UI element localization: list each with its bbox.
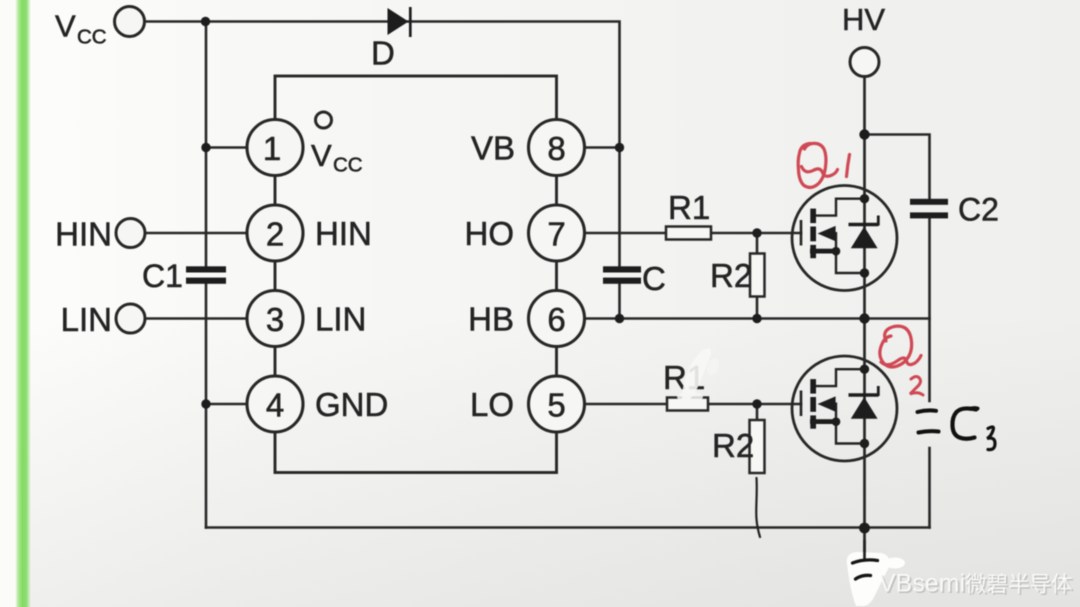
svg-text:LO: LO [470, 386, 514, 423]
svg-text:6: 6 [547, 301, 565, 338]
svg-text:LIN: LIN [315, 301, 366, 338]
svg-text:C: C [642, 260, 666, 297]
svg-text:1: 1 [263, 130, 281, 167]
svg-text:C1: C1 [142, 258, 183, 294]
svg-text:R2: R2 [710, 257, 752, 294]
svg-text:LIN: LIN [61, 301, 112, 338]
svg-text:CC: CC [77, 26, 107, 49]
svg-text:2: 2 [266, 216, 284, 253]
svg-text:VB: VB [471, 130, 515, 167]
svg-text:HB: HB [468, 301, 514, 338]
svg-text:D: D [371, 35, 395, 72]
svg-text:VBsemi微碧半导体: VBsemi微碧半导体 [879, 570, 1073, 598]
svg-text:7: 7 [547, 216, 565, 253]
svg-text:HIN: HIN [55, 216, 112, 253]
svg-text:HV: HV [842, 2, 885, 37]
svg-text:8: 8 [547, 130, 565, 167]
svg-text:CC: CC [333, 154, 363, 177]
svg-text:3: 3 [266, 301, 284, 338]
svg-text:GND: GND [315, 386, 388, 423]
svg-text:HO: HO [465, 215, 515, 252]
svg-text:5: 5 [547, 387, 565, 424]
svg-text:HIN: HIN [315, 215, 372, 252]
svg-text:V: V [55, 9, 76, 44]
svg-text:4: 4 [266, 387, 284, 424]
svg-text:V: V [311, 138, 332, 173]
svg-text:C2: C2 [958, 192, 999, 228]
svg-text:R2: R2 [712, 427, 754, 464]
svg-text:R1: R1 [668, 189, 710, 226]
